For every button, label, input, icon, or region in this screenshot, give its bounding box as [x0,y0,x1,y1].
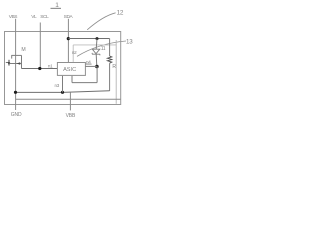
transistor M gate lead [6,62,9,64]
wire VBB vertical [69,92,71,110]
clamp circuit box 13 left edge [72,45,74,62]
wire ASIC bottom pin vertical [71,76,73,83]
svg-text:VBB: VBB [66,113,76,119]
wire n1 horizontal to ASIC [22,68,58,70]
wire horizontal to ASIC bottom pin [72,82,97,84]
svg-text:12: 12 [117,10,124,17]
node junction dot above diode [96,37,99,40]
wire top horizontal n2 to resistor [68,38,109,40]
svg-text:n2: n2 [72,50,77,55]
wire VL drop to node n1 [39,23,41,69]
wire n4 from ASIC right edge [85,63,91,65]
wire VBS/GND vertical column [15,19,17,110]
svg-text:n4: n4 [86,59,91,64]
wire n3 horizontal left part [16,91,63,93]
svg-text:13: 13 [126,39,133,46]
wire n3 horizontal right part [63,91,110,93]
svg-text:GND: GND [11,112,22,118]
leader line of 13 [77,41,126,56]
transistor M top stub [12,54,22,56]
diode D cathode lead [95,54,98,66]
clamp circuit box 13 top edge [73,44,116,46]
transistor M channel bar segment [11,55,13,59]
node dot GND junction [14,91,17,94]
node n4 junction dot [95,65,99,69]
node n3 junction dot [61,91,64,94]
diode D triangle [92,49,100,54]
svg-text:M: M [21,47,25,53]
transistor M gate zener arrow [8,62,11,65]
node n2 junction dot on SDA [67,37,70,40]
outer module box 12 [5,32,121,105]
clamp circuit box 13 right edge [115,40,117,104]
svg-text:R: R [112,64,116,70]
wire bottom rail [16,98,121,100]
wire n4 down from dot [96,67,98,83]
svg-text:VL: VL [31,14,37,20]
svg-text:n1: n1 [48,63,53,68]
svg-text:n3: n3 [54,83,59,88]
transistor M bottom stub [10,63,22,65]
wire SDA drop to ASIC top [67,19,69,63]
transistor M gate bar [8,60,10,66]
transistor M source arrow on bottom stub [17,62,21,64]
diode D zener bar [92,53,100,55]
leader line of 12 [87,13,115,30]
node n1 junction dot [38,67,41,70]
resistor R bottom lead [109,63,111,91]
svg-text:SCL: SCL [40,14,49,20]
diode D anode lead [95,39,98,50]
svg-text:11: 11 [101,46,106,52]
resistor R top lead [109,39,111,57]
underline of figure number 1 [51,7,62,9]
wire n4 to diode bottom [85,65,97,67]
ASIC block [57,63,85,76]
svg-text:ASIC: ASIC [63,67,76,73]
wire ASIC bottom to n3 [62,76,64,93]
transistor M drain vertical [21,55,23,68]
resistor R zigzag [107,56,111,63]
